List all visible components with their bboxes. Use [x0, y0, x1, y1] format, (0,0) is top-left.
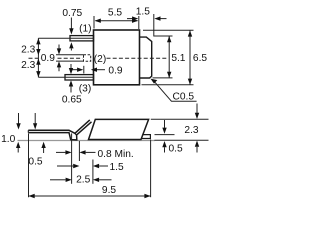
- center line through pin 2 (mid segment): [58, 57, 83, 59]
- lead left end cap: [27, 130, 29, 132]
- extension line body corner (V3): [92, 160, 94, 184]
- package body (side view): [89, 119, 149, 139]
- svg-text:0.5: 0.5: [28, 157, 42, 168]
- dim 5.5 body width: [94, 8, 139, 29]
- lead elbow inner edge: [75, 133, 77, 135]
- gull-wing lead top edge (side view): [28, 120, 90, 133]
- seating plane line (gray): [18, 140, 156, 142]
- dim 0.5 lead standoff: [28, 142, 45, 168]
- dim 6.5 body height: [142, 30, 208, 85]
- pin 1 center line: [38, 37, 93, 39]
- extension line tab lead end (9.5): [150, 140, 152, 198]
- pin 1 (top view): [70, 36, 94, 41]
- svg-text:5.5: 5.5: [108, 8, 122, 19]
- svg-text:2.3: 2.3: [21, 45, 35, 56]
- dim 2.5: [50, 174, 112, 185]
- dim 0.8 Min: [56, 149, 134, 160]
- dim 0.65 pin3 width: [62, 64, 82, 105]
- extension line mold contact (V2): [78, 141, 80, 161]
- dim 5.1 tab height: [153, 36, 186, 78]
- extension line seating level (side right): [155, 139, 209, 141]
- pin 3 center line: [38, 76, 93, 78]
- svg-text:1.5: 1.5: [110, 162, 124, 173]
- svg-text:2.5: 2.5: [76, 174, 90, 185]
- svg-text:0.5: 0.5: [169, 143, 183, 154]
- dim 0.5 tab lead thickness: [162, 120, 183, 154]
- svg-text:0.8 Min.: 0.8 Min.: [98, 149, 134, 160]
- svg-text:5.1: 5.1: [171, 53, 185, 64]
- dim 2.3 body height (side): [184, 104, 199, 153]
- dim 0.9 pin2 width: [41, 45, 84, 72]
- svg-text:C0.5: C0.5: [173, 91, 195, 102]
- chamfer note C0.5 with leader: [151, 79, 197, 103]
- dim 1.5 tab width: [127, 6, 167, 36]
- pin 2 hidden outline (dashed box): [84, 55, 91, 62]
- center line through pin 2 (right segment): [107, 57, 169, 59]
- dim 1.0 lead height: [1, 113, 37, 153]
- svg-text:(1): (1): [79, 24, 91, 35]
- svg-text:0.9: 0.9: [108, 66, 122, 77]
- svg-text:2.3: 2.3: [21, 60, 35, 71]
- dim 0.9 pin2 stub length: [72, 66, 123, 77]
- svg-text:2.3: 2.3: [184, 125, 198, 136]
- extension line body top (2.3 side): [151, 118, 209, 120]
- pin 3 (top view): [65, 75, 94, 80]
- extension line tab lead top (0.5 side): [155, 134, 175, 136]
- svg-text:(3): (3): [79, 84, 91, 95]
- dim 1.5 (side view): [57, 162, 124, 173]
- svg-text:1.5: 1.5: [136, 6, 150, 17]
- dim 0.75 pin1 width: [62, 8, 82, 51]
- svg-text:0.65: 0.65: [62, 94, 82, 105]
- svg-text:0.75: 0.75: [62, 8, 82, 19]
- svg-text:1.0: 1.0: [1, 134, 15, 145]
- svg-text:0.9: 0.9: [41, 53, 55, 64]
- extension line lead end (V1): [71, 133, 73, 183]
- svg-text:6.5: 6.5: [193, 53, 207, 64]
- heatsink tab with chamfered corners (top view): [140, 37, 152, 78]
- tab lead (side view, right): [141, 135, 150, 139]
- svg-text:(2): (2): [94, 54, 106, 65]
- dim 9.5 overall length: [29, 185, 151, 198]
- svg-text:9.5: 9.5: [102, 185, 116, 196]
- dim 2.3 / 2.3 pin pitch: [21, 38, 40, 77]
- center line through pin 2 (left segment): [29, 57, 42, 59]
- gull-wing lead bottom edge (side view): [28, 122, 91, 140]
- package body outline (top view): [94, 30, 140, 85]
- extension line lead left end (9.5): [28, 134, 30, 198]
